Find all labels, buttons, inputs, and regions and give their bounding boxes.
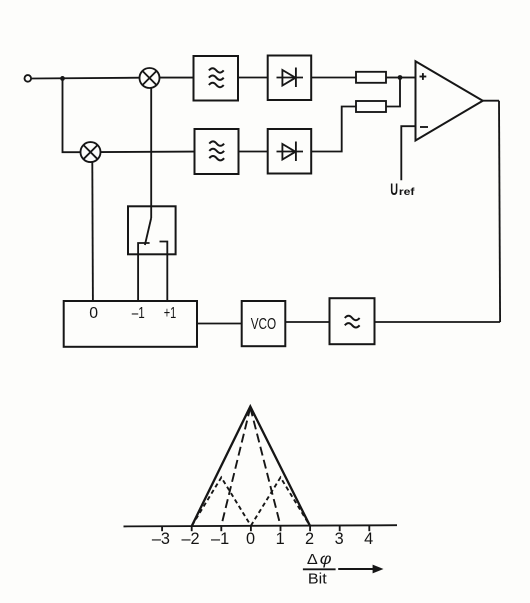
resistor R2 <box>356 101 386 112</box>
wire VCO to filter F3 <box>285 321 329 323</box>
input terminal <box>25 75 32 82</box>
wire M1 to filter F1 <box>159 77 193 79</box>
wire R1 to summing node <box>386 77 400 79</box>
svg-text:–2: –2 <box>181 530 199 548</box>
wire op-amp minus input down to Uref <box>401 126 415 180</box>
wire D1 to resistor R1 <box>311 77 356 79</box>
x axis <box>124 525 398 526</box>
svg-text:φ: φ <box>320 551 332 568</box>
svg-text:–1: –1 <box>132 305 145 322</box>
svg-text:0: 0 <box>89 305 98 322</box>
wire input to mixer M1 <box>31 77 139 80</box>
wire M2 to filter F2 <box>100 151 194 154</box>
resistor R1 <box>356 72 386 83</box>
node A input junction dot <box>60 76 65 81</box>
wire selector to VCO <box>197 323 242 325</box>
dashed curve apex to +1 <box>250 408 280 526</box>
wire R2 to detector D2 output <box>311 107 356 152</box>
dashed small triangle right <box>251 477 310 525</box>
wire junction down and right to mixer M2 <box>63 78 81 152</box>
svg-text:Δ: Δ <box>307 552 318 568</box>
svg-text:ref: ref <box>399 187 415 198</box>
wire node B down to resistor R2 <box>386 78 400 107</box>
wire M1 down to switch S1 lever <box>150 88 152 218</box>
wire node B to op-amp plus input <box>400 77 416 79</box>
svg-text:0: 0 <box>246 530 255 548</box>
op-amp U1 comparator <box>416 61 483 140</box>
node B summing junction dot <box>398 75 403 80</box>
svg-text:+1: +1 <box>164 305 177 322</box>
svg-text:Bit: Bit <box>308 571 328 588</box>
wire F1 to detector D1 <box>238 77 268 79</box>
svg-text:–3: –3 <box>152 530 170 548</box>
arrow <box>338 565 383 574</box>
dashed curve apex to -1 <box>221 408 250 526</box>
fraction bar <box>303 568 336 570</box>
solid curve main triangle <box>192 407 310 526</box>
filter F3 loop filter box <box>330 298 375 344</box>
svg-text:2: 2 <box>305 530 314 548</box>
wire feedback vertical <box>499 101 500 322</box>
wire op-amp output <box>483 100 499 102</box>
VCO U2 <box>242 301 286 346</box>
wire F3 to feedback corner <box>375 321 501 323</box>
svg-text:VCO: VCO <box>251 316 277 333</box>
svg-text:1: 1 <box>276 530 285 548</box>
axis labels <box>152 530 373 548</box>
wire F2 to detector D2 <box>239 151 268 153</box>
svg-text:U: U <box>390 181 398 199</box>
filter F2 bandpass box <box>195 129 239 174</box>
svg-text:–1: –1 <box>211 530 229 548</box>
label delta phi over Bit <box>307 551 332 588</box>
block selector 0/-1/+1 <box>64 301 197 347</box>
switch S1 <box>128 206 176 301</box>
filter F1 bandpass box <box>194 56 239 101</box>
mixer M2 <box>81 142 101 162</box>
label Uref <box>390 181 415 199</box>
detector D1 diode box <box>268 56 312 101</box>
dashed small triangle left <box>192 477 251 525</box>
mixer M1 <box>140 68 160 88</box>
detector D2 diode box <box>268 129 312 174</box>
svg-text:3: 3 <box>335 530 344 548</box>
wire M2 down to selector 0 input <box>91 162 94 301</box>
svg-text:4: 4 <box>364 530 373 548</box>
axis ticks <box>162 526 369 532</box>
